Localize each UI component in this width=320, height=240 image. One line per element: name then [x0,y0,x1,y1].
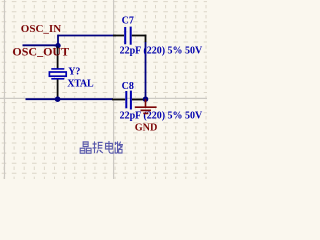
capacitor C7 plates [124,27,126,44]
crystal top pin [57,47,59,69]
振 [93,141,95,153]
capacitor C8 left pin [112,99,125,101]
crystal Y? top plate [51,68,64,70]
wire OSC_IN horizontal [58,35,116,37]
svg-text:OSC_IN: OSC_IN [21,23,61,35]
capacitor C8 plates [125,91,127,108]
svg-text:OSC_OUT: OSC_OUT [12,45,69,59]
junction dot C8/GND [143,96,149,102]
svg-text:GND: GND [135,122,158,133]
junction dot node OSC [55,43,60,48]
wire right vertical C7 to C8 [145,35,147,42]
capacitor C7 left pin [113,35,124,37]
svg-text:Y?: Y? [68,67,80,78]
路 [114,142,116,145]
晶 [83,142,88,147]
svg-text:C8: C8 [122,81,134,92]
svg-text:C7: C7 [122,16,134,27]
wire OSC_OUT horizontal [23,44,59,46]
crystal body rect [49,72,66,76]
caption 晶振电路 (drawn strokes) [80,141,122,153]
capacitor C7 right pin [132,35,147,37]
wire vertical from OSC_IN down to junction [57,35,59,47]
wire bottom horizontal [26,98,114,100]
ground GND symbol [135,99,157,113]
capacitor C8 right pin [132,99,146,101]
crystal bottom plate [51,78,64,80]
svg-text:22pF (220) 5% 50V: 22pF (220) 5% 50V [120,110,203,121]
电 [108,141,110,151]
svg-text:22pF (220) 5% 50V: 22pF (220) 5% 50V [120,45,203,56]
svg-text:XTAL: XTAL [67,79,94,90]
junction dot crystal bottom [55,96,61,102]
crystal bottom pin [57,80,59,100]
